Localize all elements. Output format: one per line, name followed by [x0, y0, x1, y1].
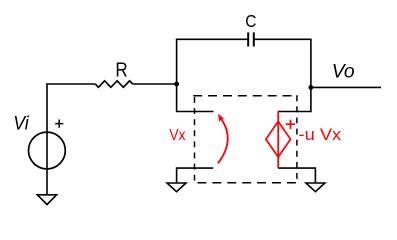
wire: top rail right of capacitor: [254, 39, 311, 87]
controlled source -u Vx (diamond): [266, 121, 291, 157]
resistor R: [95, 81, 132, 88]
ground (left, under Vi): [37, 195, 56, 205]
wire: Vi to resistor: [46, 83, 95, 85]
wire: Vi branch vertical through source: [46, 84, 48, 195]
wire: node B down and left to controlled source top: [278, 87, 311, 111]
wire: output to Vo: [311, 86, 381, 88]
plus polarity mark of Vi: [55, 120, 63, 128]
node B (output junction dot): [308, 85, 313, 90]
wire: resistor to node A: [133, 83, 177, 85]
wire (red): through controlled source: [277, 111, 279, 168]
svg-text:Vi: Vi: [13, 114, 29, 135]
arrow: Vx sense arrow (curved): [218, 117, 228, 163]
ground (right, under controlled source): [306, 183, 325, 192]
node A (junction dot): [174, 82, 179, 87]
svg-text:-u Vx: -u Vx: [299, 126, 343, 144]
dashed box left edge: [194, 97, 196, 183]
ground (middle, under input terminal): [167, 183, 186, 192]
svg-text:R: R: [115, 58, 127, 81]
svg-text:Vo: Vo: [332, 60, 355, 82]
dashed box top edge (controlled-source model boundary): [193, 95, 297, 97]
wire: nullor input - terminal to middle ground: [177, 168, 214, 183]
wire: top rail left of capacitor: [176, 38, 248, 40]
plus polarity mark of controlled source: [286, 120, 295, 129]
svg-text:C: C: [245, 11, 256, 31]
wire: node A down to nullor input + terminal: [177, 84, 214, 112]
dashed box right edge: [296, 95, 298, 183]
wire: controlled source bottom to right ground: [278, 168, 315, 183]
arrowhead of Vx sense arrow: [218, 114, 225, 123]
capacitor C plates: [248, 32, 254, 46]
dashed box bottom edge: [194, 182, 297, 184]
voltage source Vi (circle): [29, 132, 66, 169]
svg-text:Vx: Vx: [169, 127, 185, 144]
wire: node A up to capacitor top rail: [176, 39, 178, 84]
